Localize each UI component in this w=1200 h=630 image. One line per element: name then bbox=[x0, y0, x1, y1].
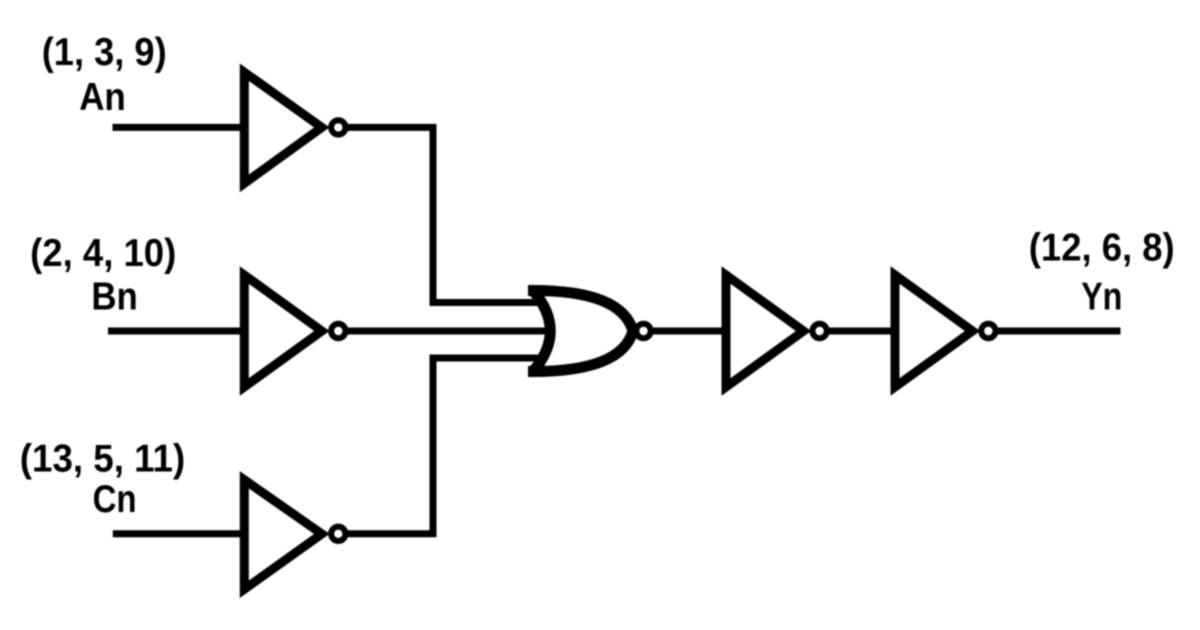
svg-text:Bn: Bn bbox=[91, 276, 137, 319]
svg-text:(12, 6, 8): (12, 6, 8) bbox=[1029, 227, 1175, 270]
svg-text:(13, 5, 11): (13, 5, 11) bbox=[20, 438, 185, 481]
svg-text:(2, 4, 10): (2, 4, 10) bbox=[30, 232, 176, 275]
svg-text:Cn: Cn bbox=[93, 478, 137, 521]
svg-text:(1, 3, 9): (1, 3, 9) bbox=[42, 31, 167, 74]
svg-text:An: An bbox=[79, 76, 126, 119]
svg-text:Yn: Yn bbox=[1081, 276, 1122, 319]
